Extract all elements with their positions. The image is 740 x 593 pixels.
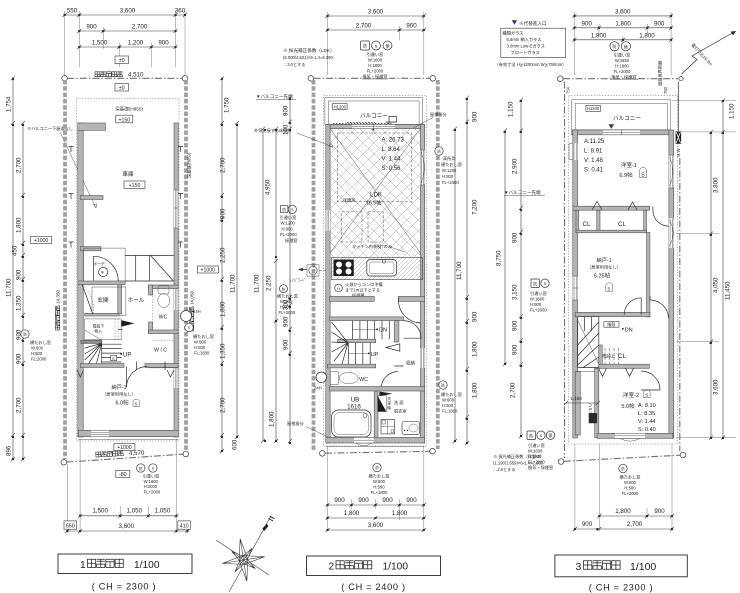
plan2 top dimension extension lines (328, 12, 424, 75)
svg-text:納戸-1: 納戸-1 (597, 256, 612, 264)
plan3 balcony tip note (504, 189, 545, 196)
plan1 toilet fixture (158, 286, 170, 308)
svg-text:300: 300 (283, 299, 290, 310)
plan2 top site boundary (308, 76, 436, 82)
svg-text:5.0帖: 5.0帖 (621, 402, 635, 410)
compass (216, 516, 274, 592)
plan1 interior stub wall A (81, 196, 104, 200)
svg-text:S: S (134, 402, 137, 407)
svg-text:A: 8.10: A: 8.10 (638, 403, 656, 409)
plan2 LDK hatch (330, 129, 420, 258)
svg-text:V: 1.44: V: 1.44 (382, 157, 401, 163)
svg-text:H1200: H1200 (587, 106, 600, 111)
plan3 wall below CL (599, 364, 650, 368)
plan2 door arc kitchen (398, 297, 421, 323)
svg-text:2,700: 2,700 (132, 24, 148, 31)
plan2 kitchen note (352, 243, 405, 252)
svg-text:1,800: 1,800 (344, 510, 360, 517)
plan2 wall below kitchen (330, 296, 375, 301)
svg-text:100: 100 (283, 124, 290, 135)
svg-text:H1200: H1200 (334, 104, 347, 109)
svg-text:（居室利用なし）: （居室利用なし） (587, 264, 621, 271)
svg-text:DN: DN (625, 328, 633, 334)
svg-text:900: 900 (158, 40, 169, 47)
svg-text:900: 900 (472, 311, 479, 322)
svg-text:3,800: 3,800 (713, 177, 720, 193)
plan3 bottom dim row 900/2700 (573, 521, 674, 531)
svg-text:8,750: 8,750 (496, 250, 503, 266)
plan1 right inner dim column (220, 76, 239, 453)
plan2 right inner dim column (465, 96, 479, 445)
plan3 door arc hall (653, 206, 669, 226)
plan2 bottom site boundary (320, 448, 436, 456)
svg-text:-80: -80 (119, 472, 127, 478)
plan1 right wall (174, 123, 178, 437)
svg-text:DN: DN (379, 328, 387, 334)
svg-text:WC: WC (159, 315, 168, 321)
svg-text:1/100: 1/100 (630, 561, 656, 573)
svg-text:機: 機 (387, 405, 391, 410)
svg-text:900: 900 (654, 20, 665, 27)
caption plan2 (307, 556, 441, 592)
plan1 right outer dim 11700 (230, 121, 240, 439)
svg-text:H:500: H:500 (194, 345, 206, 350)
svg-text:深基礎(H850): 深基礎(H850) (115, 106, 143, 113)
svg-text:+150: +150 (118, 117, 130, 123)
svg-text:脱衣室: 脱衣室 (394, 408, 407, 415)
plan3 left wall window (569, 143, 578, 160)
svg-text:W:1650: W:1650 (615, 58, 630, 63)
svg-text:24H: 24H (314, 386, 322, 391)
svg-text:1,800: 1,800 (269, 411, 276, 427)
svg-text:UB: UB (351, 397, 360, 404)
plan2 bottom dim row 1800x2 (326, 510, 426, 520)
svg-text:H: H (337, 287, 340, 291)
plan3 bottom dim row 1800/900 (575, 444, 674, 531)
plan2 right wall (420, 124, 424, 443)
svg-text:1,350: 1,350 (16, 295, 23, 311)
plan3 left window note mid (530, 279, 549, 313)
plan2 LDK area figures (382, 138, 405, 173)
svg-text:900: 900 (512, 232, 519, 243)
svg-text:6.9帖: 6.9帖 (619, 171, 633, 179)
svg-text:※代替進入口: ※代替進入口 (519, 20, 547, 27)
svg-text:3: 3 (576, 561, 582, 573)
svg-text:7,200: 7,200 (472, 199, 479, 215)
svg-text:FL+2000: FL+2000 (280, 232, 297, 237)
plan1 left inner dim column (12, 121, 26, 461)
plan1 storage room top wall (81, 364, 125, 368)
plan3 top wall (572, 130, 671, 135)
svg-text:24H: 24H (193, 309, 201, 314)
plan1 level label +-0 upper (115, 56, 129, 64)
svg-text:900: 900 (86, 24, 97, 31)
plan2 roof note left (287, 420, 330, 438)
svg-text:W:1600: W:1600 (528, 449, 543, 454)
svg-text:900: 900 (220, 208, 227, 219)
plan3 right outer dim 11450 (721, 98, 736, 439)
plan3 stairs (578, 317, 633, 368)
plan2 range hood (290, 265, 327, 284)
svg-text:2,700: 2,700 (220, 157, 227, 173)
plan3 wall above CL (573, 206, 650, 210)
svg-text:4,510: 4,510 (128, 72, 144, 79)
plan1 right site boundary (186, 80, 195, 452)
plan1 bottom wall (79, 430, 179, 436)
svg-text:換気・採煙窓: 換気・採煙窓 (528, 464, 553, 471)
svg-text:防: 防 (529, 432, 533, 438)
svg-text:FL+2000: FL+2000 (614, 69, 631, 74)
plan3 right wall window casement (669, 218, 674, 248)
svg-text:（居室利用なし）: （居室利用なし） (102, 391, 136, 398)
svg-text:1616: 1616 (347, 404, 361, 411)
svg-text:UP: UP (371, 352, 379, 358)
svg-text:M.W: M.W (676, 148, 681, 157)
svg-text:キッチン内装制?のみ: キッチン内装制?のみ (352, 243, 392, 250)
svg-text:1,350: 1,350 (220, 343, 227, 359)
plan3 1190 dim (564, 396, 600, 405)
svg-text:S: S (375, 44, 378, 49)
svg-text:14,350: 14,350 (56, 290, 61, 304)
plan3 room1 label (619, 161, 646, 179)
plan2 LDK dashed rect (337, 133, 412, 202)
svg-text:900: 900 (382, 497, 393, 504)
plan3 storage room label (587, 256, 621, 292)
plan1 interior stub wall B (81, 247, 101, 251)
svg-text:3,600: 3,600 (119, 523, 135, 530)
plan2 right window note (439, 381, 462, 414)
svg-text:4,570: 4,570 (129, 449, 145, 457)
plan1 bottom dim row 1500/1050/1050 (67, 439, 187, 533)
caption plan3 (555, 555, 687, 593)
svg-text:1,150: 1,150 (729, 103, 736, 119)
svg-text:550: 550 (67, 8, 78, 15)
plan1 left site boundary (55, 80, 65, 459)
svg-text:1,500: 1,500 (92, 40, 108, 47)
svg-text:H:1800: H:1800 (368, 63, 382, 68)
plan1 level label -80 (116, 470, 130, 478)
svg-text:2,700: 2,700 (510, 382, 517, 398)
svg-text:車庫: 車庫 (122, 170, 134, 178)
plan1 bottom site boundary (61, 449, 189, 465)
svg-text:( CH = 2300 ): ( CH = 2300 ) (589, 583, 654, 593)
plan1 section marks (69, 147, 184, 248)
svg-text:防: 防 (613, 43, 617, 49)
plan3 left inner dim column (508, 98, 524, 438)
svg-text:洋室-2: 洋室-2 (623, 391, 639, 399)
plan1 porch (84, 248, 126, 281)
plan1 top dimension row 900/2700 (77, 24, 177, 34)
plan3 room2 door arc (641, 371, 660, 390)
svg-text:▼バルコニー先端: ▼バルコニー先端 (256, 93, 293, 100)
plan2 bottom window note (369, 463, 390, 495)
svg-text:S: S (607, 287, 610, 292)
svg-text:11,700: 11,700 (6, 278, 13, 297)
plan2 top wall (326, 124, 425, 128)
svg-text:11,450: 11,450 (725, 281, 732, 300)
plan2 left window note (280, 205, 298, 244)
svg-text:4,050: 4,050 (713, 277, 720, 293)
svg-text:H:1800: H:1800 (528, 454, 542, 459)
svg-text:1,800: 1,800 (220, 301, 227, 317)
plan3 power lead-in (678, 31, 736, 131)
svg-text:11,700: 11,700 (230, 274, 237, 293)
svg-text:1,800: 1,800 (472, 382, 479, 398)
svg-text:2,250: 2,250 (220, 247, 227, 263)
plan1 top-left wall (78, 123, 106, 130)
svg-text:LDK: LDK (370, 192, 383, 199)
plan1 garage label (122, 170, 145, 189)
svg-text:3,600: 3,600 (120, 8, 136, 15)
plan2 left outer dim 11700 (254, 127, 266, 443)
plan3 bottom wall (597, 433, 673, 438)
plan2 closet (379, 360, 415, 397)
svg-text:玄関: 玄関 (97, 296, 109, 304)
svg-text:H:2000: H:2000 (144, 484, 158, 489)
svg-text:2,700: 2,700 (220, 397, 227, 413)
plan3 lighting note bottom-left (493, 453, 544, 473)
svg-text:▼バルコニー先端: ▼バルコニー先端 (504, 189, 541, 196)
svg-text:W:1600: W:1600 (368, 58, 383, 63)
svg-text:FL+2000: FL+2000 (530, 308, 547, 313)
plan3 top site boundary (558, 76, 679, 82)
svg-text:W:600: W:600 (194, 340, 207, 345)
svg-text:(6.000/4.621)×6-1.4=6.390: (6.000/4.621)×6-1.4=6.390 (283, 55, 333, 60)
svg-text:H:900: H:900 (282, 226, 294, 231)
svg-text:S: 0.40: S: 0.40 (638, 427, 656, 433)
svg-text:900: 900 (334, 497, 345, 504)
plan1 top dimension extension lines (65, 11, 185, 75)
plan2 open triangle marker (386, 344, 400, 351)
svg-text:屋根振分: 屋根振分 (287, 420, 305, 427)
svg-text:±0: ±0 (119, 58, 125, 64)
plan2 left wall (326, 124, 330, 443)
svg-text:5.25帖: 5.25帖 (594, 272, 611, 280)
svg-text:CL: CL (618, 353, 626, 360)
FOOTER (58, 516, 687, 593)
svg-text:FL+2000: FL+2000 (528, 460, 545, 465)
svg-text:S: S (540, 433, 543, 438)
plan3 room1 area figures (584, 139, 605, 174)
plan2 wall right of stairs (394, 321, 399, 342)
svg-text:1,800: 1,800 (639, 32, 655, 39)
svg-text:W:600: W:600 (442, 398, 455, 403)
plan1 eaves dotted outline (77, 99, 179, 441)
plan2 top window symbols (361, 41, 393, 80)
svg-text:4,950: 4,950 (265, 179, 272, 195)
plan3 bottom site boundary (558, 452, 686, 464)
svg-text:FL:1800: FL:1800 (194, 351, 210, 356)
svg-text:900: 900 (406, 23, 417, 30)
svg-text:H:500: H:500 (31, 351, 43, 356)
plan1 right window note (193, 333, 214, 356)
svg-text:V: 1.48: V: 1.48 (584, 158, 603, 164)
plan1 left window note (21, 330, 51, 362)
plan2 floor note (254, 127, 333, 147)
caption plan1 (58, 554, 192, 592)
plan3 CL boxes (576, 202, 647, 233)
svg-text:H:1800: H:1800 (615, 64, 629, 69)
plan2 balcony tip note (256, 93, 296, 100)
svg-text:H:500: H:500 (624, 486, 636, 491)
plan2 24H fan left (314, 372, 327, 391)
svg-text:H:500: H:500 (373, 485, 385, 490)
svg-text:11,700: 11,700 (254, 274, 261, 293)
plan2 top dimension row 2700/900 (326, 23, 426, 33)
svg-text:550: 550 (66, 523, 75, 529)
plan2 left inner dim column (283, 96, 293, 443)
svg-text:2: 2 (329, 562, 335, 573)
svg-text:±0: ±0 (119, 86, 125, 92)
svg-text:+1000: +1000 (201, 268, 216, 274)
svg-text:900: 900 (654, 508, 665, 515)
PLAN1 (6, 8, 240, 534)
svg-text:900: 900 (283, 339, 290, 350)
plan2 bottom dim row 900x4 (326, 446, 426, 531)
svg-text:W:1200: W:1200 (281, 221, 296, 226)
svg-text:S: S (544, 281, 547, 286)
plan1 side window V marks (77, 370, 174, 377)
svg-text:750: 750 (663, 86, 668, 94)
plan3 left window note low (527, 431, 555, 471)
plan1 storage door arc (126, 367, 128, 388)
svg-text:2,250: 2,250 (266, 275, 273, 291)
plan3 room2 labels (621, 390, 650, 410)
plan3 CL window V marks (599, 368, 634, 376)
plan3 CL room (599, 345, 627, 368)
svg-text:+150: +150 (129, 183, 141, 189)
svg-text:防: 防 (363, 43, 367, 49)
svg-text:※ 採光補正係数（LDK）: ※ 採光補正係数（LDK） (283, 47, 335, 54)
svg-text:フロートガラス: フロートガラス (511, 49, 540, 56)
svg-text:床暖房: 床暖房 (343, 197, 356, 204)
svg-text:物入: 物入 (95, 329, 103, 334)
svg-text:H:800: H:800 (442, 174, 454, 179)
svg-text:3,600: 3,600 (615, 8, 631, 15)
svg-text:900: 900 (472, 111, 479, 122)
svg-text:+1000: +1000 (34, 238, 49, 244)
svg-text:3.0mm Low-Eガラス: 3.0mm Low-Eガラス (507, 43, 545, 50)
plan1 storage room labels (102, 383, 139, 407)
svg-text:900: 900 (358, 497, 369, 504)
svg-text:1/100: 1/100 (383, 562, 409, 573)
svg-text:14,050: 14,050 (190, 291, 195, 305)
svg-text:バルコニー: バルコニー (360, 113, 388, 120)
svg-text:俵: 俵 (624, 43, 628, 49)
svg-text:FL+1800: FL+1800 (371, 490, 388, 495)
svg-text:H:500: H:500 (442, 403, 454, 408)
svg-text:ポーチ: ポーチ (93, 262, 105, 267)
svg-text:道路境界距離: 道路境界距離 (657, 60, 664, 86)
svg-text:900: 900 (16, 353, 23, 364)
plan3 top window symbols (610, 42, 638, 81)
svg-text:900: 900 (512, 344, 519, 355)
svg-text:S: 0.56: S: 0.56 (382, 166, 402, 172)
plan1 entry door arc (82, 285, 93, 315)
plan2 bath UB (332, 391, 379, 443)
svg-text:FL+2400: FL+2400 (442, 180, 459, 185)
svg-text:1,050: 1,050 (127, 508, 143, 515)
plan2 hall door arc (404, 321, 422, 339)
svg-text:FL+2000: FL+2000 (622, 491, 639, 496)
svg-text:1,190: 1,190 (570, 396, 582, 401)
svg-text:洋室-1: 洋室-1 (621, 161, 637, 169)
plan1 bottom dim row 550/3600/410 (64, 521, 190, 533)
svg-text:S: S (112, 356, 115, 361)
svg-text:ホール: ホール (128, 297, 145, 304)
svg-text:H:900: H:900 (530, 302, 542, 307)
plan3 right inner dim column (672, 100, 736, 439)
svg-text:1,750: 1,750 (224, 97, 231, 113)
plan3 top dimension row 1800/1800 (572, 32, 673, 42)
plan2 bottom dim row 3600 (326, 522, 426, 532)
svg-text:11,700: 11,700 (456, 261, 463, 280)
plan3 hall door arc (650, 296, 669, 319)
svg-text:W:600: W:600 (31, 346, 44, 351)
plan3 left wall window 2 (573, 276, 578, 300)
plan1 stairs mid (81, 319, 134, 366)
svg-text:1/100: 1/100 (134, 560, 160, 571)
svg-text:900: 900 (406, 497, 417, 504)
plan1 entry walls (118, 281, 122, 314)
svg-text:410: 410 (180, 523, 189, 529)
plan3 right wall (669, 130, 674, 438)
plan2 right outer dim 11700 (453, 127, 463, 443)
PLAN3 (493, 8, 736, 531)
svg-text:1,050: 1,050 (155, 508, 171, 515)
svg-text:UP: UP (123, 353, 131, 359)
PLAN2 (254, 9, 479, 533)
plan2 stair top wall (330, 317, 404, 321)
plan3 top dimension row 900/1800/900 (572, 20, 673, 30)
svg-text:900: 900 (512, 320, 519, 331)
svg-text:洗: 洗 (387, 396, 391, 401)
svg-text:2,900: 2,900 (512, 158, 519, 174)
plan1 bottom window symbols (137, 464, 161, 495)
svg-text:900: 900 (582, 521, 593, 528)
svg-text:1,800: 1,800 (591, 32, 607, 39)
svg-text:W I C: W I C (154, 348, 167, 354)
plan3 eaves dotted outline (569, 96, 678, 445)
svg-text:A:11.25: A:11.25 (584, 139, 605, 145)
svg-text:〒: 〒 (100, 270, 104, 275)
svg-text:1,500: 1,500 (92, 508, 108, 515)
svg-text:CL: CL (618, 221, 626, 228)
svg-text:俵: 俵 (386, 43, 390, 49)
svg-text:FL:2000: FL:2000 (31, 357, 47, 362)
plan1 top dimension row 1500/1200/900 (77, 40, 177, 50)
svg-text:1,800: 1,800 (615, 508, 631, 515)
plan3 storage bottom wall (575, 312, 650, 316)
plan1 level label +-0 lower (115, 84, 129, 92)
svg-text:1: 1 (80, 560, 86, 571)
plan1 deep foundation label (115, 106, 143, 124)
plan2 bottom wall (326, 437, 425, 443)
plan2 wc room (327, 364, 424, 391)
plan3 top dimension row 3600 (572, 8, 673, 18)
plan3 right wall window upper (669, 155, 674, 188)
svg-text:2,700: 2,700 (356, 23, 372, 30)
svg-text:16.5帖: 16.5帖 (366, 199, 381, 207)
svg-text:1,800: 1,800 (16, 217, 23, 233)
svg-text:高所用: 高所用 (443, 155, 456, 162)
svg-text:1,800: 1,800 (472, 341, 479, 357)
svg-text:360: 360 (175, 8, 186, 15)
plan2 balcony (325, 98, 423, 131)
plan1 left outer dim 11700 (6, 76, 16, 461)
plan3 left outer dim 8750 (496, 129, 508, 367)
svg-text:6.8mm 網入ガラス: 6.8mm 網入ガラス (507, 36, 542, 43)
